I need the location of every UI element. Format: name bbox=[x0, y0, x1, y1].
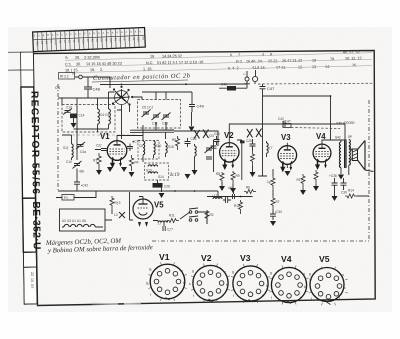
svg-text:C17: C17 bbox=[118, 38, 122, 43]
svg-text:5P: 5P bbox=[348, 135, 352, 139]
svg-text:6: 6 bbox=[230, 53, 232, 57]
svg-text:R6: R6 bbox=[172, 138, 176, 142]
svg-text:V3: V3 bbox=[240, 253, 251, 263]
switch contacts upper middle bbox=[194, 130, 214, 139]
svg-text:■C17: ■C17 bbox=[133, 140, 141, 144]
cap C47 block mid bbox=[283, 120, 291, 128]
wire V2 left flank bbox=[211, 140, 217, 172]
svg-text:C:1.: C:1. bbox=[65, 62, 72, 66]
svg-text:1g: 1g bbox=[267, 180, 271, 184]
V2 screen resistor R8 bbox=[216, 172, 224, 184]
svg-text:o←: o← bbox=[72, 72, 77, 76]
svg-text:R1: R1 bbox=[93, 159, 97, 163]
sidebar title box BE-352-U bbox=[23, 198, 42, 252]
main lower bus line bbox=[162, 191, 218, 196]
ground arrow under C30 bbox=[270, 221, 276, 226]
junction dots lower bus bbox=[174, 190, 195, 192]
svg-text:R2: R2 bbox=[210, 213, 214, 217]
wire switch to dashed coil box bbox=[117, 105, 130, 140]
cap C42 lower bbox=[74, 169, 88, 192]
socket V1 bbox=[146, 262, 187, 301]
antenna input terminal bbox=[72, 72, 88, 79]
handwritten margins note line2 bbox=[47, 244, 153, 254]
svg-text:V4: V4 bbox=[281, 254, 292, 264]
antenna terminal stubs up bbox=[247, 70, 256, 77]
switch contact pair b bbox=[189, 216, 198, 221]
svg-text:C48: C48 bbox=[93, 87, 101, 92]
svg-text:20.: 20. bbox=[75, 56, 80, 60]
svg-text:R12: R12 bbox=[234, 204, 240, 208]
svg-text:C26: C26 bbox=[164, 185, 170, 189]
tube V1 bbox=[107, 138, 127, 169]
sidebar title box RECEPTOR 55/56 bbox=[21, 87, 41, 198]
svg-text:g: g bbox=[232, 270, 234, 274]
cap C21 bbox=[214, 132, 221, 145]
mains dashed rail right bbox=[258, 82, 374, 85]
cap C49 bbox=[189, 99, 205, 112]
svg-text:R·2: R·2 bbox=[236, 60, 242, 64]
svg-text:a: a bbox=[181, 269, 183, 273]
cap C41 small bbox=[228, 186, 235, 199]
handwritten margins note line1 bbox=[45, 238, 122, 247]
wire IF to V2 grid bbox=[130, 122, 218, 146]
wire speaker to chassis bbox=[349, 146, 374, 172]
trimmer C5 bbox=[142, 106, 154, 118]
ground arrow C38 bbox=[332, 190, 338, 201]
coil L2 in box bbox=[109, 106, 111, 129]
wire antenna rail to switch bbox=[88, 77, 110, 88]
svg-text:C11: C11 bbox=[152, 122, 158, 126]
svg-text:BE·352·U: BE·352·U bbox=[30, 201, 42, 249]
junction wires under V3 bbox=[273, 164, 287, 196]
svg-text:V1: V1 bbox=[159, 252, 170, 262]
left sidebar column bbox=[21, 52, 38, 304]
electrolytic C39 bbox=[341, 178, 348, 195]
rotary band switch S1 bbox=[112, 86, 133, 106]
tube V3 label bbox=[281, 133, 291, 142]
svg-text:ƒC47: ƒC47 bbox=[283, 120, 291, 124]
osc coil box L7 S13 S14 bbox=[145, 163, 169, 180]
parts list text row 3 bbox=[65, 63, 372, 73]
wire V1 anode to IFT1 bbox=[117, 125, 143, 141]
svg-text:16.46. 24.: 16.46. 24. bbox=[246, 59, 263, 63]
resistor R6h horizontal bbox=[244, 186, 256, 194]
socket V4 bbox=[270, 266, 309, 305]
handwritten c19 bbox=[169, 173, 180, 178]
svg-text:19.: 19. bbox=[90, 68, 95, 72]
V2 cathode resistor R9 bbox=[231, 171, 240, 185]
wire V2 anode rail bbox=[229, 124, 345, 140]
handwritten note: Conmutador en posicion OC2b bbox=[92, 72, 190, 82]
parts list text row 1 bbox=[65, 50, 372, 60]
dropper resistor R13 bbox=[110, 196, 121, 210]
svg-text:S1ƒ: S1ƒ bbox=[63, 146, 69, 150]
coil S16 bbox=[195, 144, 197, 160]
switch contacts V2-V3 bbox=[247, 129, 262, 138]
svg-text:+C38: +C38 bbox=[329, 174, 337, 178]
ground arrow V1 right leg bbox=[121, 167, 127, 172]
svg-text:U2 U3 U1 U1 U5: U2 U3 U1 U1 U5 bbox=[62, 219, 86, 223]
svg-text:S42: S42 bbox=[335, 136, 341, 140]
wire switch to trimmer bank bbox=[132, 92, 192, 100]
svg-text:a: a bbox=[224, 270, 226, 274]
socket V3 bbox=[231, 264, 270, 303]
socket V5 bbox=[309, 267, 348, 306]
trimmer C11 bbox=[152, 113, 161, 126]
node C4 label bbox=[55, 85, 61, 90]
V4 grid resistor R17 bbox=[297, 174, 306, 188]
svg-text:C14: C14 bbox=[79, 114, 85, 118]
svg-text:P1: P1 bbox=[64, 196, 68, 200]
ground arrow under R1 bbox=[96, 169, 102, 175]
svg-text:g₁: g₁ bbox=[149, 267, 152, 271]
tube V3 bbox=[278, 143, 297, 173]
svg-text:S:: S: bbox=[65, 56, 69, 60]
V3 anode resistor R12 bbox=[234, 200, 243, 214]
resistor R6 vert bbox=[172, 136, 180, 150]
svg-text:V5: V5 bbox=[154, 201, 164, 210]
svg-text:a: a bbox=[342, 273, 344, 277]
dashes to V4 top bbox=[291, 128, 340, 129]
label box RF 2.2 bbox=[59, 73, 75, 80]
caps near L17 bbox=[223, 197, 231, 203]
lamp L3 with switch bbox=[114, 212, 125, 218]
svg-text:C13: C13 bbox=[162, 122, 168, 126]
ground arrow V4 cathode bbox=[313, 184, 319, 191]
coupling cap C20 bbox=[246, 139, 256, 151]
tube V4 label bbox=[316, 132, 326, 141]
text com 400/350 bbox=[336, 121, 355, 125]
svg-text:C39: C39 bbox=[341, 191, 347, 195]
V1 grid cap C2? bbox=[95, 144, 107, 151]
socket label V5 bbox=[319, 254, 330, 264]
svg-text:▪C30: ▪C30 bbox=[275, 210, 282, 214]
svg-text:Cƒ7: Cƒ7 bbox=[167, 228, 173, 232]
ground arrow under diode load bbox=[250, 166, 256, 177]
resistor R2 mid bbox=[205, 210, 214, 224]
parts table top strip bbox=[33, 27, 146, 51]
ground arrow mid1 bbox=[192, 160, 198, 175]
V3 grid resistor bbox=[267, 176, 275, 190]
ferrite rod antenna box bbox=[60, 209, 106, 231]
tube V2 label bbox=[224, 131, 234, 140]
dashed box antenna coils OM bbox=[62, 105, 115, 133]
wire bus mid low bbox=[207, 196, 253, 198]
wire bus to ferrite box bbox=[80, 191, 112, 220]
ground arrow under R8 bbox=[219, 182, 225, 191]
svg-text:R8: R8 bbox=[216, 172, 220, 176]
tube V5 label bbox=[154, 201, 164, 210]
right chassis dash-dot border bbox=[368, 100, 370, 241]
svg-text:C20: C20 bbox=[137, 37, 141, 42]
svg-text:R4: R4 bbox=[135, 161, 139, 165]
tube V2 bbox=[220, 140, 239, 170]
IFT1 secondary coil bbox=[154, 141, 162, 155]
wire heater chain bbox=[130, 192, 208, 224]
svg-text:f: f bbox=[339, 297, 340, 301]
V3 cathode resistor R7 bbox=[271, 196, 280, 210]
fuse box P1 bbox=[56, 195, 80, 201]
tube V4 bbox=[313, 141, 331, 170]
svg-text:L3: L3 bbox=[114, 213, 118, 217]
ground arrow under C14 bbox=[71, 123, 77, 128]
top chassis wire bbox=[100, 83, 247, 85]
svg-text:g: g bbox=[270, 271, 272, 275]
svg-text:g: g bbox=[309, 272, 311, 276]
svg-text:R22: R22 bbox=[35, 41, 39, 46]
electrolytic C38 bbox=[329, 174, 338, 190]
svg-text:f: f bbox=[311, 297, 312, 301]
left page margin lines bbox=[8, 52, 21, 70]
svg-text:R9: R9 bbox=[236, 174, 240, 178]
cap C26 block bbox=[153, 180, 171, 198]
IFT1 primary coil bbox=[139, 141, 145, 155]
trimmer C10 bbox=[63, 106, 72, 115]
bottom-left page smudges bbox=[92, 303, 141, 306]
svg-text:C5 17.2: C5 17.2 bbox=[142, 106, 153, 110]
wire detector drop bbox=[258, 145, 267, 176]
cap C14b bbox=[163, 223, 173, 232]
svg-text:C21: C21 bbox=[214, 132, 220, 136]
trimmer C10b lower bbox=[66, 160, 85, 174]
svg-text:R7: R7 bbox=[276, 200, 280, 204]
coil L1 in box bbox=[98, 106, 110, 129]
svg-text:V3: V3 bbox=[281, 133, 291, 142]
wire coil top rail bbox=[62, 92, 115, 106]
socket label V3 bbox=[240, 253, 251, 263]
svg-text:R17: R17 bbox=[297, 178, 303, 182]
resistor R11 horizontal bbox=[167, 214, 179, 223]
svg-text:C14: C14 bbox=[81, 39, 85, 44]
svg-text:4ƒL: 4ƒL bbox=[228, 186, 234, 190]
padder cap C14 block bbox=[70, 114, 85, 124]
svg-text:22. 10. 54: 22. 10. 54 bbox=[30, 272, 34, 288]
svg-text:C10: C10 bbox=[66, 160, 72, 164]
ground arrow V3 cathode bbox=[285, 171, 291, 176]
svg-text:6. 4. 2: 6. 4. 2 bbox=[228, 66, 239, 70]
svg-text:8: 8 bbox=[270, 53, 272, 57]
filter resistor R14 bbox=[345, 189, 357, 199]
svg-text:C49: C49 bbox=[197, 104, 205, 109]
svg-text:15.22: 15.22 bbox=[268, 59, 278, 63]
trimmer across coil bbox=[76, 142, 86, 154]
coil S18 bbox=[166, 141, 174, 157]
left chassis dash-dot bbox=[57, 84, 59, 191]
diode load resistor vert bbox=[251, 151, 255, 166]
cap C42 on rail bbox=[278, 117, 285, 127]
cap C46 block bbox=[219, 81, 247, 91]
socket label V2 bbox=[201, 253, 212, 263]
svg-text:f: f bbox=[233, 294, 234, 298]
cap C16 bbox=[185, 137, 197, 147]
svg-text:S10: S10 bbox=[156, 144, 162, 148]
ground arrow under R4 bbox=[129, 172, 135, 177]
dashed box RF trimmer bank bbox=[138, 100, 181, 129]
wire V2 right flank bbox=[237, 140, 245, 180]
svg-text:V5: V5 bbox=[319, 254, 330, 264]
osc padder coil left bbox=[63, 142, 73, 160]
svg-text:C2ƒ: C2ƒ bbox=[96, 144, 102, 148]
svg-text:C10: C10 bbox=[54, 40, 58, 45]
IFT1 bottom leads bbox=[143, 155, 154, 162]
svg-text:L17: L17 bbox=[212, 194, 218, 198]
svg-text:L7: L7 bbox=[158, 222, 162, 226]
wire coil to rail bbox=[62, 135, 72, 142]
IFT1 dashed box bbox=[138, 141, 159, 160]
wire left drop from rail bbox=[58, 97, 116, 99]
ground arrow V1 cathode bbox=[107, 167, 113, 172]
antenna terminals pair bbox=[243, 72, 258, 85]
svg-text:f: f bbox=[222, 294, 223, 298]
svg-text:ƛc19: ƛc19 bbox=[169, 173, 180, 178]
svg-text:V1: V1 bbox=[100, 132, 110, 141]
svg-text:f: f bbox=[150, 293, 151, 297]
svg-text:f: f bbox=[271, 296, 272, 300]
svg-text:S14: S14 bbox=[158, 175, 164, 179]
HT rail to V4 bbox=[263, 95, 332, 140]
bottom chassis dash-dot border bbox=[152, 240, 369, 242]
svg-text:R6: R6 bbox=[246, 186, 250, 190]
svg-text:Rƒ3: Rƒ3 bbox=[115, 201, 121, 205]
outer page frame bbox=[33, 51, 375, 306]
svg-text:f: f bbox=[179, 292, 180, 296]
svg-text:30.: 30. bbox=[76, 62, 81, 66]
cap C47 on drop bbox=[260, 86, 276, 92]
svg-text:40n: 40n bbox=[79, 170, 85, 174]
interstage coil bbox=[267, 141, 273, 157]
resistor R4 bbox=[129, 155, 139, 171]
svg-text:C16: C16 bbox=[191, 137, 197, 141]
trimmer bank mid bbox=[205, 146, 214, 160]
svg-text:S13: S13 bbox=[146, 169, 152, 173]
resistor R1 bbox=[93, 153, 101, 169]
coil L17 small bbox=[212, 194, 222, 199]
svg-text:C8: C8 bbox=[139, 144, 143, 148]
wire antenna down rail bbox=[262, 84, 264, 145]
heater coil L7 bbox=[158, 221, 167, 225]
svg-text:a: a bbox=[303, 272, 305, 276]
svg-text:S18: S18 bbox=[168, 145, 174, 149]
tube V1 label bbox=[100, 132, 110, 141]
svg-text:R11: R11 bbox=[169, 214, 175, 218]
socket V2 bbox=[189, 264, 230, 303]
svg-text:2.: 2. bbox=[100, 68, 103, 72]
svg-text:C4a: C4a bbox=[80, 150, 86, 154]
wire box1 bottom bus bbox=[74, 129, 109, 132]
wire left coil drop bbox=[76, 98, 78, 160]
svg-text:7: 7 bbox=[238, 53, 240, 57]
parts list text row 2 bbox=[65, 56, 372, 67]
sidebar small date cell bbox=[23, 252, 37, 304]
svg-text:S10: S10 bbox=[109, 38, 113, 43]
trimmer C13 bbox=[162, 113, 171, 126]
svg-text:RECEPTOR 55/56: RECEPTOR 55/56 bbox=[28, 91, 40, 194]
ground arrow under R9 bbox=[230, 184, 236, 193]
left low bus wire bbox=[58, 190, 162, 192]
svg-text:▪C42: ▪C42 bbox=[81, 184, 88, 188]
svg-text:g: g bbox=[192, 269, 194, 273]
ground arrow mid2 bbox=[185, 174, 191, 179]
V4 cathode resistor bbox=[314, 170, 318, 184]
svg-text:f: f bbox=[300, 296, 301, 300]
socket label V4 bbox=[281, 254, 292, 264]
tube V5 rectifier bbox=[133, 197, 153, 228]
svg-text:79: 79 bbox=[330, 57, 334, 61]
svg-text:C47: C47 bbox=[267, 86, 275, 91]
svg-text:V2: V2 bbox=[201, 253, 212, 263]
svg-text:f: f bbox=[262, 294, 263, 298]
output transformer T2 bbox=[335, 135, 352, 175]
svg-text:Rf 2.2: Rf 2.2 bbox=[60, 75, 69, 79]
ground arrow under R17 bbox=[300, 188, 306, 195]
wire C49 drop with arrow bbox=[189, 112, 195, 132]
tuning gang line bbox=[62, 134, 137, 136]
speaker bbox=[352, 141, 365, 171]
svg-text:75: 75 bbox=[352, 63, 356, 67]
ground arrow under transformer bbox=[338, 175, 344, 180]
B+ feed wire right bbox=[341, 124, 369, 196]
wire V4 anode to transformer bbox=[322, 140, 341, 141]
antenna coupling cap C48 bbox=[84, 77, 101, 98]
cap C17 bbox=[127, 140, 140, 152]
svg-text:40. 51. 52: 40. 51. 52 bbox=[343, 50, 360, 54]
svg-text:4: 4 bbox=[262, 53, 264, 57]
svg-text:f: f bbox=[193, 294, 194, 298]
svg-text:2·32.30m: 2·32.30m bbox=[84, 55, 100, 59]
svg-text:C4·C9: C4·C9 bbox=[100, 113, 109, 117]
svg-text:R14: R14 bbox=[348, 189, 354, 193]
svg-text:C10: C10 bbox=[66, 106, 72, 110]
svg-text:a: a bbox=[264, 271, 266, 275]
cap C30 bbox=[270, 210, 282, 220]
socket label V1 bbox=[159, 252, 170, 262]
svg-text:ƒ7: ƒ7 bbox=[269, 146, 273, 150]
switch contact pair a bbox=[189, 208, 198, 213]
svg-text:C20: C20 bbox=[246, 139, 252, 143]
